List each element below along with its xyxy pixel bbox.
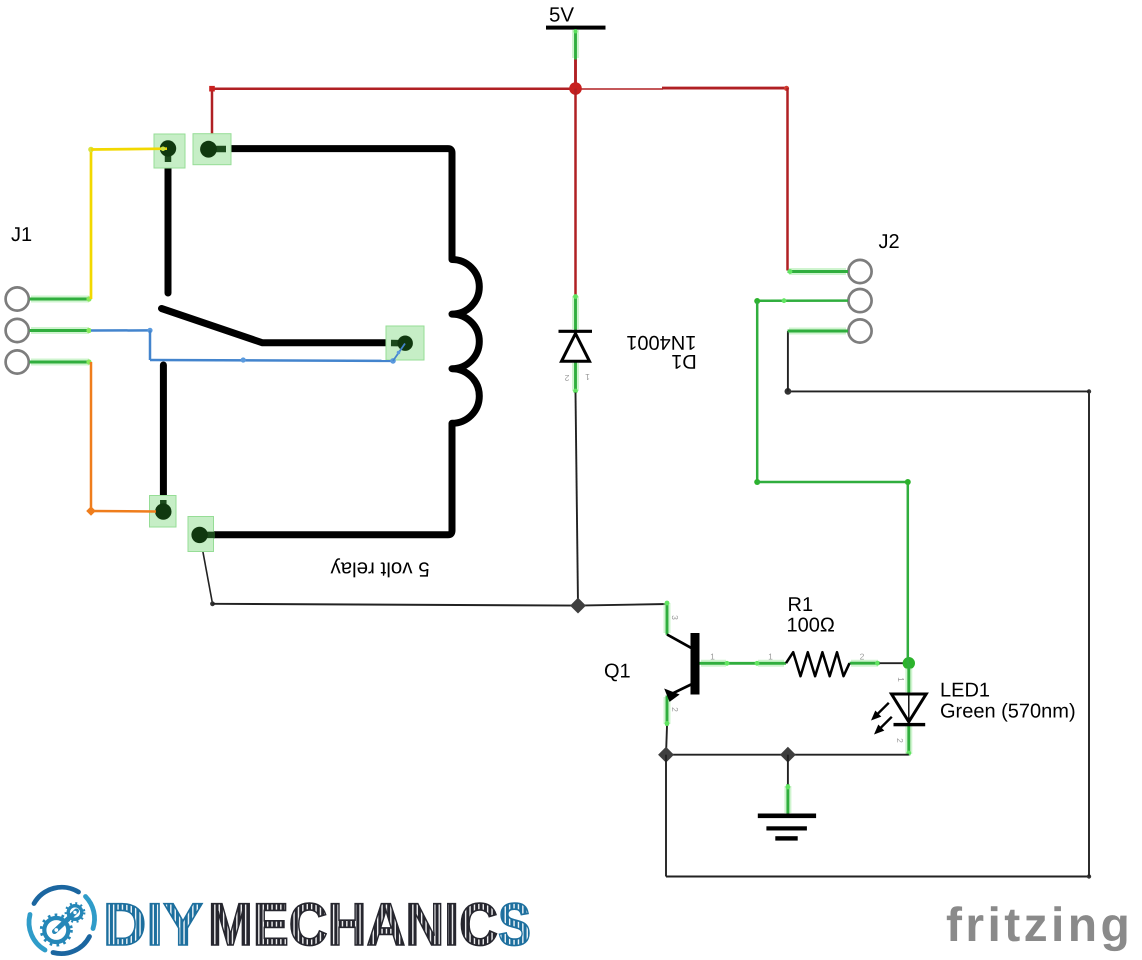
resistor R1 zigzag — [786, 652, 850, 676]
wire black resistor to LED junction — [880, 662, 905, 664]
connector J1 pin 2 circle — [6, 319, 29, 342]
transistor Q1 ref label — [604, 661, 631, 683]
wire orange J1 pin3 to relay NC pin — [86, 362, 156, 516]
transistor Q1 pin number 2 — [670, 707, 680, 712]
diode D1 value label 1N4001 — [626, 331, 696, 353]
relay pin bottom-left (switch NC) — [150, 496, 177, 528]
svg-text:J1: J1 — [11, 224, 32, 246]
svg-text:100Ω: 100Ω — [787, 615, 835, 637]
wire green J1 pin 3 stub — [30, 359, 92, 364]
diode D1 pin number 1 — [585, 372, 590, 382]
node junction dot at base net — [570, 598, 586, 614]
node junction emitter ground rail — [658, 747, 674, 763]
relay pin common — [386, 326, 424, 360]
wire black bottom run to the right — [666, 874, 1091, 878]
node green junction dot above LED1 — [903, 657, 915, 669]
wire red riser below 5V — [574, 60, 577, 89]
relay pin top-left (switch) — [154, 134, 185, 168]
diode D1 symbol — [559, 331, 593, 361]
resistor R1 value label 100 ohm — [787, 615, 835, 637]
wire green into ground symbol — [786, 784, 791, 815]
wire black ground stub — [787, 755, 789, 785]
svg-text:Q1: Q1 — [604, 661, 631, 683]
svg-text:2: 2 — [860, 652, 865, 662]
relay switch fixed contact upper left — [165, 152, 172, 293]
wire green from 5V bar to net — [574, 29, 578, 61]
svg-text:DIY: DIY — [103, 891, 203, 958]
connector J1 label — [11, 224, 32, 246]
svg-text:D1: D1 — [671, 350, 697, 372]
wire green resistor R1 right lead — [850, 661, 881, 666]
svg-text:MECHANIC: MECHANIC — [208, 891, 498, 958]
svg-text:2: 2 — [564, 373, 569, 383]
transistor Q1 pin number 1 — [710, 652, 715, 662]
wire black from relay pin to base junction — [200, 536, 578, 606]
LED1 symbol — [892, 694, 927, 726]
connector J2 pin 1 circle — [848, 260, 871, 283]
svg-text:R1: R1 — [788, 594, 814, 616]
transistor Q1 pin number 3 — [670, 615, 680, 620]
wire black diode D1 to base junction — [576, 393, 579, 605]
relay pin top (coil +) — [193, 134, 231, 165]
svg-text:1: 1 — [896, 677, 906, 682]
wire blue J1 pin2 to relay common — [91, 328, 405, 364]
wire green diode D1 bottom lead — [573, 362, 578, 394]
DIY Mechanics logo text MECHANIC — [208, 891, 498, 958]
LED1 pin number 2 — [895, 738, 905, 743]
wire green transistor base to resistor R1 — [700, 661, 787, 666]
wire red down to relay coil pin — [209, 86, 215, 150]
relay label 5 volt relay — [330, 558, 430, 581]
connector J1 pin 1 circle — [6, 287, 29, 310]
svg-text:1N4001: 1N4001 — [626, 331, 696, 353]
svg-text:5 volt relay: 5 volt relay — [330, 558, 430, 581]
wire green transistor emitter lead — [665, 696, 670, 727]
svg-text:1: 1 — [585, 372, 590, 382]
svg-text:J2: J2 — [879, 231, 900, 253]
wire black emitter down to ground rail — [666, 726, 667, 755]
svg-text:1: 1 — [710, 652, 715, 662]
svg-text:2: 2 — [895, 738, 905, 743]
wire green transistor collector lead — [665, 601, 670, 635]
LED1 pin number 1 — [896, 677, 906, 682]
wire green J2 pin 1 stub from red net — [788, 269, 849, 274]
wire black up to J2 pin 3 green stub — [787, 331, 789, 391]
wire green J1 pin 2 stub — [30, 328, 92, 333]
power symbol 5V — [546, 4, 606, 30]
wire yellow J1 pin1 to relay switch pin — [88, 147, 167, 300]
relay lower left contact — [160, 365, 167, 503]
connector J2 label — [879, 231, 900, 253]
svg-text:1: 1 — [768, 652, 773, 662]
relay body top side and right side with coil — [205, 149, 479, 535]
wire green J2 down the right side to LED net — [907, 482, 910, 663]
svg-text:Green (570nm): Green (570nm) — [940, 701, 1076, 723]
wire green J2 pin 2 long route to LED net — [754, 298, 911, 485]
wire green diode D1 top lead — [573, 294, 578, 331]
diode D1 ref label — [671, 350, 697, 372]
node red junction at 5V net — [569, 82, 582, 95]
wire green J2 pin 3 stub — [788, 328, 849, 335]
wire black right edge riser — [1087, 389, 1091, 876]
wire red top bus to the left — [212, 87, 576, 90]
resistor R1 ref label — [788, 594, 814, 616]
wire red down to diode D1 — [574, 89, 577, 296]
relay switch blade — [162, 309, 399, 343]
wire red top bus to the right — [576, 86, 790, 91]
connector J2 pin 2 circle — [848, 289, 871, 312]
wire black junction to transistor collector — [578, 604, 667, 606]
wire green J1 pin 1 stub — [30, 296, 92, 301]
svg-text:5V: 5V — [549, 4, 574, 27]
wire green LED1 cathode lead — [906, 725, 911, 756]
ground symbol — [758, 814, 816, 841]
wire black ground rail — [666, 754, 909, 756]
svg-text:fritzing: fritzing — [946, 899, 1133, 952]
wire black down-left loop to bottom — [665, 755, 667, 877]
resistor R1 pin number 1 — [768, 652, 773, 662]
LED1 value label — [940, 701, 1076, 723]
svg-text:3: 3 — [670, 615, 680, 620]
DIY Mechanics logo icon dashed circle — [29, 887, 95, 953]
svg-text:S: S — [498, 891, 531, 958]
resistor R1 pin number 2 — [860, 652, 865, 662]
wire red down to J2 pin 1 — [786, 88, 789, 271]
diode D1 pin number 2 — [564, 373, 569, 383]
connector J2 pin 3 circle — [848, 319, 871, 342]
relay pin bottom (coil -) — [188, 517, 215, 552]
svg-text:2: 2 — [670, 707, 680, 712]
LED1 ref label — [940, 680, 990, 702]
svg-text:LED1: LED1 — [940, 680, 990, 702]
fritzing watermark — [946, 899, 1133, 952]
LED1 light emission arrows — [871, 703, 892, 735]
wire green LED1 anode lead — [905, 663, 912, 693]
DIY Mechanics logo text S — [498, 891, 531, 958]
DIY Mechanics logo gears — [42, 904, 85, 945]
DIY Mechanics logo text DIY — [103, 891, 203, 958]
transistor Q1 symbol — [664, 633, 699, 702]
node junction ground symbol tap — [780, 747, 796, 763]
connector J1 pin 3 circle — [6, 350, 29, 373]
wire black top run back to J2 pin 3 net — [785, 388, 1090, 395]
